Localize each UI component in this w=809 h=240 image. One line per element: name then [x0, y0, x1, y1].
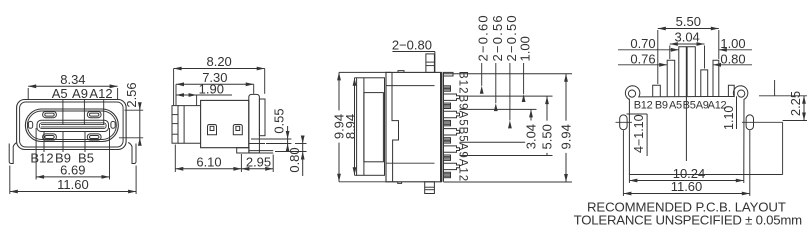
svg-text:3.04: 3.04 [524, 124, 539, 149]
svg-text:A9: A9 [72, 86, 88, 101]
svg-text:6.69: 6.69 [60, 162, 85, 177]
svg-text:1.10: 1.10 [722, 106, 736, 130]
svg-text:2−0.60: 2−0.60 [476, 14, 491, 61]
svg-text:B12: B12 [30, 151, 53, 166]
svg-text:A5: A5 [52, 86, 68, 101]
svg-text:1.90: 1.90 [199, 82, 224, 97]
svg-text:0.80: 0.80 [287, 147, 302, 172]
svg-text:B12: B12 [634, 100, 653, 112]
svg-text:4−1.10: 4−1.10 [632, 114, 646, 153]
svg-text:11.60: 11.60 [57, 177, 89, 192]
svg-text:B9: B9 [655, 100, 668, 112]
svg-text:3.04: 3.04 [674, 30, 699, 45]
svg-text:0.55: 0.55 [272, 108, 287, 133]
svg-text:2.25: 2.25 [788, 91, 803, 116]
svg-text:9.94: 9.94 [559, 124, 574, 149]
svg-text:8.94: 8.94 [343, 114, 358, 139]
svg-text:2.95: 2.95 [246, 154, 271, 169]
svg-text:B5: B5 [683, 100, 696, 112]
svg-text:B12B9A5B5A9A12: B12B9A5B5A9A12 [457, 71, 469, 182]
svg-text:8.20: 8.20 [206, 54, 231, 69]
svg-text:2.56: 2.56 [124, 82, 139, 107]
svg-text:0.76: 0.76 [630, 51, 655, 66]
svg-text:2−0.56: 2−0.56 [490, 14, 505, 61]
svg-text:1.00: 1.00 [518, 36, 533, 61]
svg-text:5.50: 5.50 [540, 124, 555, 149]
svg-text:5.50: 5.50 [676, 14, 701, 29]
svg-text:6.10: 6.10 [196, 154, 221, 169]
svg-text:TOLERANCE UNSPECIFIED ± 0.05mm: TOLERANCE UNSPECIFIED ± 0.05mm [574, 213, 803, 228]
svg-text:0.70: 0.70 [630, 36, 655, 51]
svg-text:8.34: 8.34 [60, 72, 85, 87]
svg-text:A12: A12 [89, 86, 112, 101]
svg-text:A5: A5 [669, 100, 682, 112]
svg-text:2−0.80: 2−0.80 [392, 38, 432, 53]
svg-text:0.80: 0.80 [720, 51, 745, 66]
svg-text:11.60: 11.60 [671, 179, 703, 194]
